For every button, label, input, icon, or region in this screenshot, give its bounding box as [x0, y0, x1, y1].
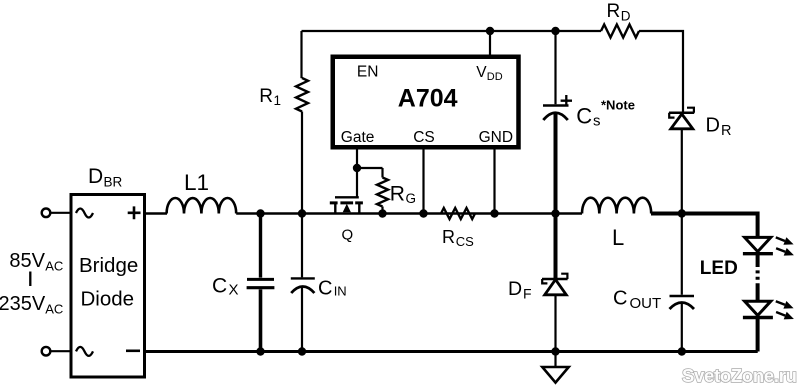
wire top rail right segment	[639, 31, 683, 113]
LED D1 arrows	[776, 237, 794, 255]
svg-text:A704: A704	[398, 85, 458, 113]
ground	[542, 352, 568, 383]
resistor R1	[296, 78, 308, 112]
svg-text:R: R	[607, 1, 621, 22]
capacitor C_X	[247, 214, 275, 352]
wire bottom rail	[146, 350, 758, 353]
LED D2 arrows	[776, 301, 794, 319]
svg-text:D: D	[621, 8, 631, 23]
ac tilde bottom	[76, 347, 93, 356]
svg-text:C: C	[318, 278, 332, 300]
terminal input bottom	[42, 347, 51, 356]
svg-text:D: D	[508, 278, 522, 300]
wire Cs stub from top rail	[554, 31, 556, 104]
op-amp U1 A704 box	[333, 57, 519, 148]
svg-text:R: R	[259, 86, 273, 107]
voltage range separator bar	[29, 272, 31, 287]
LED D1	[743, 237, 773, 301]
transistor Q mosfet	[330, 197, 363, 213]
wire VDD stub	[489, 31, 491, 57]
wire gate to R_G tee	[357, 167, 383, 169]
wire thick output rail and LED branch top	[651, 214, 758, 238]
svg-text:AC: AC	[45, 302, 63, 317]
svg-text:EN: EN	[357, 64, 379, 81]
node junction dots	[486, 27, 494, 35]
svg-text:LED: LED	[700, 258, 738, 279]
svg-text:SvetoZone.ru: SvetoZone.ru	[682, 365, 797, 386]
resistor R_CS	[441, 208, 475, 219]
wire input bottom	[50, 350, 69, 352]
diode D_R schottky	[669, 108, 694, 214]
svg-text:Q: Q	[342, 227, 354, 244]
svg-text:V: V	[476, 64, 487, 81]
svg-text:R: R	[442, 227, 455, 247]
LED D2	[743, 301, 773, 351]
resistor R_D	[601, 25, 639, 38]
svg-text:CS: CS	[413, 129, 435, 146]
svg-text:85V: 85V	[9, 250, 45, 272]
svg-text:G: G	[406, 191, 417, 206]
svg-text:235V: 235V	[0, 293, 46, 315]
wire main rail	[146, 212, 167, 215]
svg-text:D: D	[88, 165, 103, 188]
svg-text:*Note: *Note	[601, 98, 635, 113]
svg-text:Gate: Gate	[341, 129, 375, 146]
svg-text:C: C	[212, 275, 227, 298]
svg-text:F: F	[523, 285, 532, 301]
svg-text:s: s	[593, 113, 601, 130]
wire left vertical top (to R1)	[300, 31, 302, 78]
wire input top	[50, 212, 69, 214]
terminal input top	[42, 209, 51, 218]
minus sign bridge output	[126, 349, 140, 352]
wire Gate pin	[356, 150, 358, 198]
svg-text:L1: L1	[184, 170, 209, 195]
wire R1 bottom to main rail and C_IN	[301, 112, 303, 278]
svg-text:Diode: Diode	[81, 288, 135, 311]
svg-text:GND: GND	[479, 129, 513, 146]
svg-text:AC: AC	[45, 259, 63, 274]
svg-text:X: X	[229, 282, 239, 299]
svg-text:BR: BR	[104, 175, 123, 190]
svg-text:1: 1	[274, 93, 282, 108]
capacitor C_OUT	[670, 214, 695, 352]
svg-text:D: D	[706, 115, 720, 137]
svg-text:OUT: OUT	[630, 295, 662, 312]
svg-text:L: L	[612, 225, 624, 250]
svg-text:R: R	[721, 123, 731, 139]
capacitor C_IN	[291, 278, 315, 351]
svg-text:DD: DD	[487, 71, 503, 83]
svg-text:IN: IN	[334, 284, 347, 299]
capacitor C_s polarized	[543, 95, 572, 279]
wire CS pin	[422, 150, 424, 214]
wire top rail left segment	[302, 30, 602, 32]
plus sign bridge output	[128, 206, 141, 219]
svg-text:Bridge: Bridge	[79, 254, 138, 277]
wire GND pin	[493, 150, 495, 214]
inductor L1	[167, 198, 237, 214]
svg-text:C: C	[613, 288, 627, 310]
wire main rail center	[236, 212, 582, 214]
inductor L	[582, 198, 651, 214]
bridge rectifier D_BR box	[71, 195, 145, 378]
ac tilde top	[76, 209, 93, 218]
diode D_F schottky	[542, 274, 568, 352]
svg-text:C: C	[576, 104, 592, 129]
svg-text:CS: CS	[456, 234, 474, 249]
resistor R_G	[377, 168, 388, 214]
svg-text:R: R	[390, 183, 405, 206]
